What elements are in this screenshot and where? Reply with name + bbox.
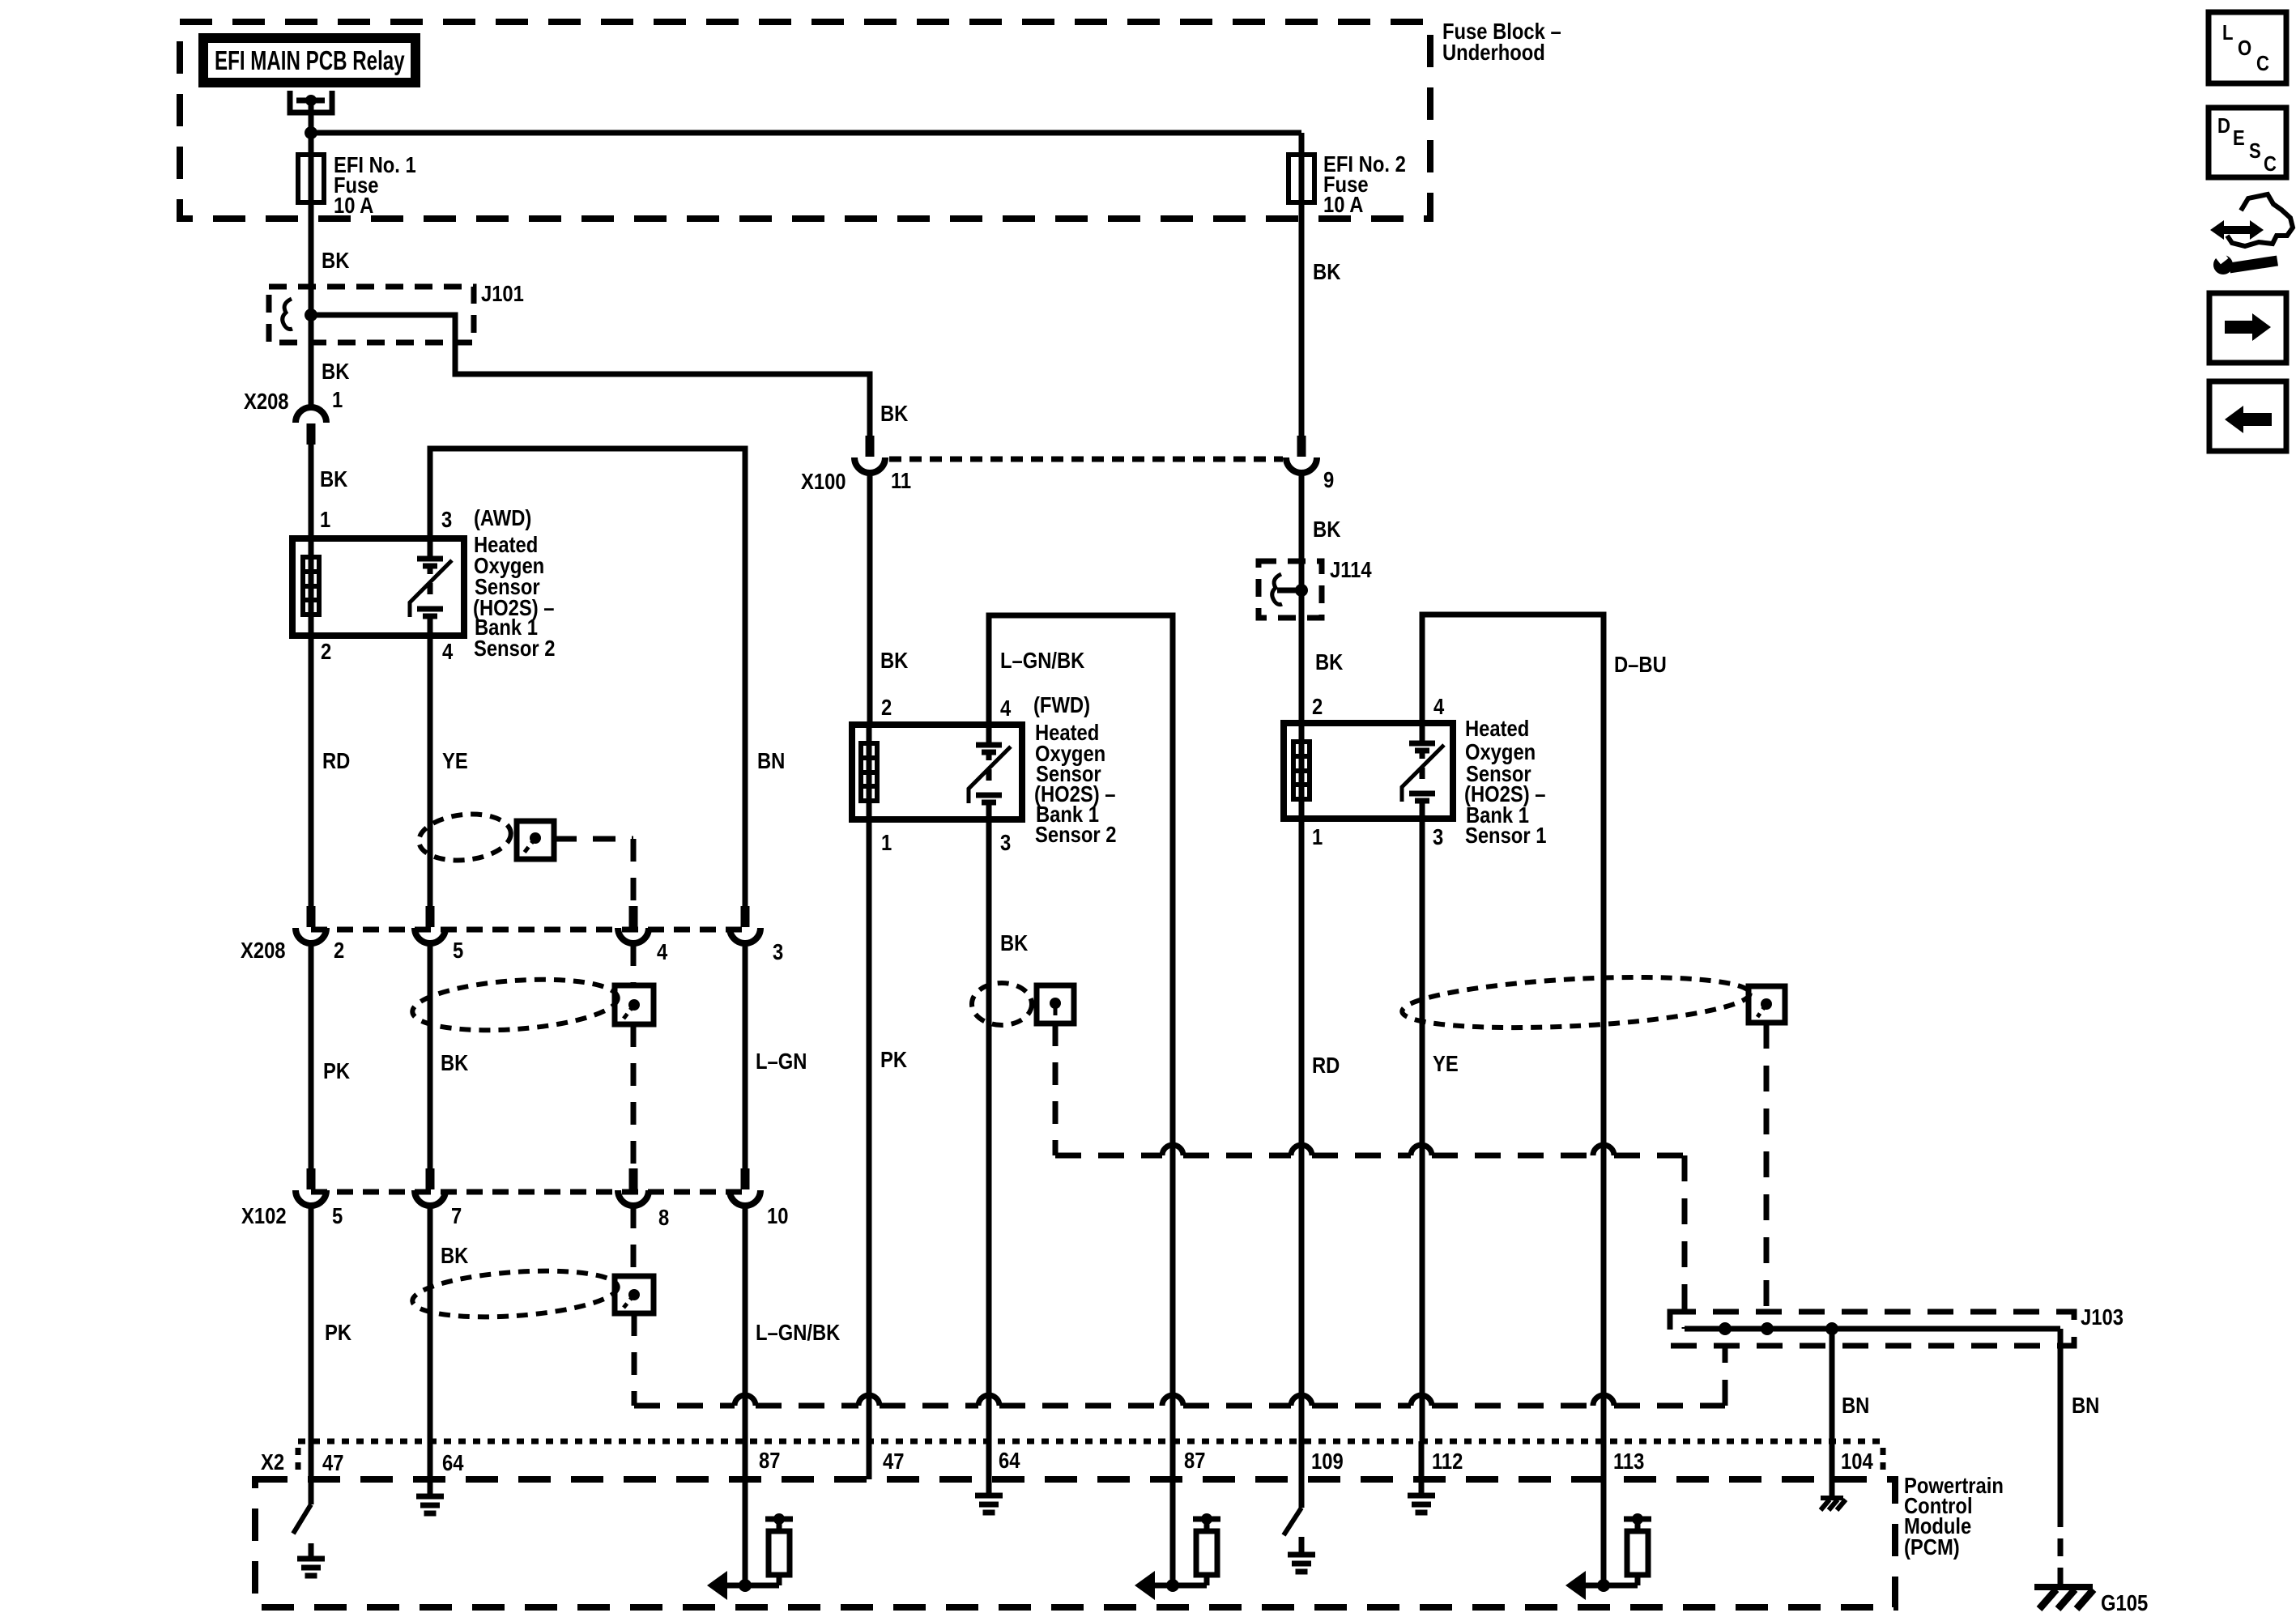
svg-text:X102: X102 [241,1202,287,1228]
wire D-BU: B1S1 pin 4 loop down to PCM pin 113 [1422,615,1604,1441]
connector X2 dotted row [298,1439,1883,1445]
svg-text:PK: PK [325,1319,351,1345]
svg-text:112: 112 [1432,1448,1463,1474]
svg-text:RD: RD [1312,1052,1340,1078]
HO2S FWD Bank 1 Sensor 2 box [852,725,1022,819]
wire YE: AWD pin 4 down [428,636,433,906]
svg-text:1: 1 [881,829,892,855]
sensor cell HO2S B1S1 [1420,723,1425,741]
wire RD: B1S1 pin 1 to PCM pin 109 [1299,819,1305,1441]
svg-text:9: 9 [1323,466,1334,492]
drain wire dashed to X208 pin 4 [554,836,633,842]
svg-text:109: 109 [1311,1448,1344,1474]
svg-text:11: 11 [891,467,911,493]
svg-text:BK: BK [322,247,350,273]
wire BK: X208-5 to X102-7 [428,943,433,1170]
svg-text:BN: BN [1842,1392,1869,1418]
svg-text:D: D [2217,114,2230,138]
svg-text:YE: YE [442,747,468,773]
svg-text:(FWD): (FWD) [1033,691,1090,717]
wire BK: X100-11 to HO2S FWD pin 2 [867,473,873,725]
svg-text:1: 1 [320,506,330,532]
connector X102 pin 7 [415,1168,462,1228]
drain wire dashed B1S1 to J103 [1764,1023,1770,1329]
shield ellipse (FWD pigtail) [972,983,1032,1025]
svg-text:2: 2 [881,694,892,720]
svg-text:8: 8 [658,1204,669,1230]
svg-text:4: 4 [657,938,668,964]
svg-text:2: 2 [1312,693,1323,719]
label: (FWD) Heated Oxygen Sensor (HO2S) - Bank 1 Sensor 2 [1033,691,1116,847]
wire PK: X208-2 to X102-5 [309,943,314,1170]
connector X208 pin 1 [244,386,343,445]
svg-text:104: 104 [1841,1448,1873,1474]
svg-text:RD: RD [322,747,350,773]
svg-text:PK: PK [323,1057,350,1083]
svg-text:Sensor 1: Sensor 1 [1465,822,1546,848]
svg-text:X2: X2 [261,1449,284,1474]
wire L-GN/BK: X102-10 to PCM pin 87 [743,1206,748,1441]
svg-text:87: 87 [759,1447,780,1473]
svg-text:10: 10 [767,1202,788,1228]
svg-text:64: 64 [999,1447,1020,1473]
junction J114 dashed box [1259,561,1322,618]
PCM pin 47 internal switch to ground [293,1441,325,1576]
PCM pin 109 internal switch to ground [1284,1441,1315,1572]
icon: back arrow box [2209,381,2286,451]
svg-text:C: C [2264,152,2277,176]
connector X102 pin 5 [241,1168,343,1228]
connector X208 pin 2 [241,906,344,963]
X2 pin labels [322,1447,1873,1475]
svg-text:J114: J114 [1330,556,1372,582]
connector X208 pin 3 [730,906,783,964]
drain wire dashed X208-4 to X102-8 [631,943,637,985]
svg-text:C: C [2256,52,2269,75]
svg-text:3: 3 [773,938,783,964]
icon: DESC box [2209,108,2286,177]
svg-text:J101: J101 [481,280,524,306]
svg-text:4: 4 [442,638,454,664]
sensor cell HO2S FWD [986,725,992,743]
connector X100 pin 9 [1286,436,1334,492]
svg-text:X208: X208 [241,937,286,963]
svg-text:PK: PK [880,1046,907,1072]
pin labels HO2S FWD [881,694,1012,855]
icon: service tool (arrow + wrench) [2210,194,2293,274]
svg-text:47: 47 [883,1448,904,1474]
fuse F1 EFI No. 1 10 A [298,151,416,218]
fuse F2 EFI No. 2 10 A [1289,151,1406,217]
svg-text:BK: BK [441,1242,469,1268]
label: Fuse Block - Underhood [1442,18,1561,65]
splice J101 [283,299,317,330]
heater element HO2S AWD [309,538,314,636]
connector X208 pin 4 [618,906,668,964]
svg-text:4: 4 [1433,693,1445,719]
shield drain box FWD [1037,985,1074,1023]
svg-text:E: E [2233,126,2245,150]
svg-text:L–GN/BK: L–GN/BK [1000,647,1085,673]
svg-text:BK: BK [441,1049,469,1075]
HO2S AWD Bank 1 Sensor 2 box [292,538,464,636]
wire: AWD pin 3 loop to BN column [430,449,745,906]
connector row X208 dashed bus [311,927,745,933]
wire BK: X100-9 through J114 to HO2S pin 2 [1299,473,1305,723]
svg-text:YE: YE [1433,1050,1459,1076]
node: relay output junction [305,126,317,139]
svg-text:10 A: 10 A [334,192,374,218]
svg-text:64: 64 [442,1449,464,1475]
drain wire dashed below X102-8 [631,1206,637,1276]
connector row X100 dashed link [889,457,1283,462]
shield drain box 2 [615,985,654,1024]
wire PK: X102-5 to PCM pin 47 [309,1206,314,1441]
svg-text:L–GN: L–GN [756,1048,807,1074]
svg-text:BK: BK [1313,516,1341,542]
svg-text:BN: BN [2072,1392,2099,1418]
wire L-GN: X208-3 to X102-10 [743,943,748,1170]
wire BK: fuse 1 to X208 pin 1 [309,202,314,408]
svg-text:Sensor 2: Sensor 2 [474,635,555,661]
shield drain box 1 [517,821,554,859]
PCM pin 64 (second) internal ground [975,1441,1003,1513]
connector row X102 dashed bus [311,1189,745,1195]
sensor cell HO2S AWD [428,538,433,556]
svg-text:X208: X208 [244,388,289,414]
svg-text:(AWD): (AWD) [474,504,531,530]
label: Powertrain Control Module (PCM) [1904,1472,2004,1560]
svg-text:10 A: 10 A [1323,191,1364,217]
wire: relay output bus to fuse 2 [311,130,1301,136]
shield drain box 3 [615,1276,654,1313]
wire BK: X208-1 to HO2S AWD pin 1 [309,441,314,538]
svg-text:BK: BK [1313,258,1341,284]
svg-text:Sensor 2: Sensor 2 [1035,821,1116,847]
svg-text:3: 3 [1000,829,1011,855]
svg-text:S: S [2249,139,2261,163]
wire BK: fuse 2 to X100 pin 9 [1299,202,1305,438]
HO2S Bank 1 Sensor 1 box [1284,723,1453,819]
wire L-GN/BK: FWD pin 4 loop down [989,615,1173,1441]
svg-text:G105: G105 [2101,1589,2148,1615]
svg-text:5: 5 [453,937,463,963]
PCM pin 64 internal ground [416,1441,444,1513]
wire BN: J103 to PCM pin 104 [1830,1329,1835,1498]
connector X102 pin 10 [730,1168,788,1228]
wire BN: J103 ground bus [1685,1326,2060,1332]
PCM pin 87 internal resistor and arrow [707,1441,793,1600]
node: J103 splice dots [1719,1322,1732,1335]
svg-text:113: 113 [1613,1448,1644,1474]
svg-text:2: 2 [334,937,344,963]
icon: next arrow box [2209,293,2286,363]
svg-text:BK: BK [322,358,350,384]
chassis ground at PCM pin 104 [1821,1496,1843,1500]
svg-text:J103: J103 [2081,1304,2123,1330]
svg-text:BK: BK [1000,930,1029,955]
svg-text:EFI MAIN PCB Relay: EFI MAIN PCB Relay [215,46,405,76]
shield ellipse (AWD pigtail) [416,810,513,865]
shield ellipse 3 [411,1265,619,1323]
connector X208 pin 5 [415,906,463,963]
svg-text:BK: BK [1315,649,1344,674]
relay contact symbol [290,91,332,155]
icon: LOC box [2209,12,2286,83]
connector X102 pin 8 [618,1168,669,1230]
svg-text:X100: X100 [801,468,846,494]
wire BN: J103 to G105 [2058,1329,2064,1509]
PCM pin 47 (second) stub [867,1441,872,1479]
svg-text:BN: BN [757,747,785,773]
splice J114 [1272,574,1308,605]
svg-text:87: 87 [1184,1447,1205,1473]
Powertrain Control Module dashed box [255,1479,1895,1607]
wire BK: FWD pin 3 to PCM pin 64 [986,819,992,1441]
label: Heated Oxygen Sensor (HO2S) - Bank 1 Sensor 1 [1464,715,1546,848]
svg-text:O: O [2238,36,2251,60]
shield ellipse (B1S1 pigtail) [1401,970,1751,1035]
drain wire dashed FWD to J103 (with hops) [1053,1023,1059,1155]
PCM pin 87 (second) internal resistor and arrow [1135,1441,1220,1600]
PCM pin 112 internal ground [1408,1441,1435,1513]
svg-text:BK: BK [880,647,909,673]
fuse block underhood dashed box [180,22,1430,219]
svg-text:Underhood: Underhood [1442,39,1545,65]
PCM pin 113 internal resistor and arrow [1565,1441,1651,1600]
heater element HO2S FWD [867,725,872,819]
wire PK: FWD pin 1 to PCM pin 47 [867,819,872,1441]
svg-text:BK: BK [320,466,348,491]
svg-text:2: 2 [321,638,331,664]
junction J103 dashed box [1670,1312,2074,1346]
wire BK: J101 branch to X100 pin 11 [311,315,870,438]
pin labels HO2S B1S1 [1312,693,1445,849]
svg-text:1: 1 [332,386,343,412]
pin labels HO2S AWD [320,506,454,664]
shield ellipse 2 [411,973,620,1036]
svg-text:(PCM): (PCM) [1904,1534,1960,1560]
wire BK: X102-7 to PCM pin 64 [428,1206,433,1441]
svg-text:Heated: Heated [1465,715,1529,741]
drain bus dashed row to J103 (with hops) [632,1395,637,1406]
relay K1 EFI MAIN PCB Relay label box [203,38,415,83]
shield drain box B1S1 [1749,986,1785,1023]
wire YE: B1S1 pin 3 to PCM pin 112 [1420,819,1425,1441]
svg-text:3: 3 [1433,823,1443,849]
svg-text:47: 47 [322,1449,343,1475]
svg-text:4: 4 [1000,695,1012,721]
svg-text:L: L [2222,21,2233,45]
connector X100 pin 11 [801,436,911,494]
ground G105 [2034,1587,2148,1615]
svg-text:L–GN/BK: L–GN/BK [756,1319,841,1345]
svg-text:BK: BK [880,400,909,426]
svg-text:7: 7 [451,1202,462,1228]
heater element HO2S B1S1 [1299,723,1305,819]
svg-text:D–BU: D–BU [1614,651,1667,677]
svg-text:3: 3 [441,506,452,532]
svg-text:5: 5 [332,1202,343,1228]
label: (AWD) Heated Oxygen Sensor (HO2S) - Bank 1 Sensor 2 [473,504,555,661]
wire RD: AWD pin 2 down [309,636,314,906]
svg-text:1: 1 [1312,823,1323,849]
junction J101 dashed box [269,287,474,343]
